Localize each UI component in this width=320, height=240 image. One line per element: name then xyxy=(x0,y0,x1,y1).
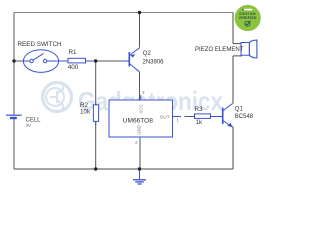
piezo element LS1 xyxy=(241,40,257,58)
svg-text:UM66TO8: UM66TO8 xyxy=(123,117,154,124)
IC U1 UM66T08 xyxy=(109,95,181,143)
svg-text:R3: R3 xyxy=(195,106,204,113)
wire right rail xyxy=(232,13,234,170)
wire top rail xyxy=(14,12,233,14)
svg-text:OUT: OUT xyxy=(160,115,170,120)
battery CELL xyxy=(6,115,22,118)
wire piezo jog xyxy=(233,44,242,56)
wire R2 branch xyxy=(95,61,97,169)
wire reed-R1-Q2 net xyxy=(14,60,129,62)
junction dot top rail xyxy=(138,11,141,14)
wire Q2 emitter to top xyxy=(139,13,141,48)
resistor R2 xyxy=(93,101,98,125)
transistor Q1 xyxy=(223,104,233,128)
junction dot bottom R2 xyxy=(94,167,97,170)
reed switch S1 xyxy=(23,50,58,73)
design verified badge xyxy=(235,5,261,31)
svg-text:10k: 10k xyxy=(80,108,91,115)
wire left rail xyxy=(13,13,15,170)
svg-text:Q1: Q1 xyxy=(235,107,244,113)
wire IC GND to bottom rail xyxy=(139,137,141,169)
transistor Q2 xyxy=(122,48,140,72)
svg-text:3V: 3V xyxy=(26,123,31,128)
svg-text:R1: R1 xyxy=(69,49,78,56)
svg-text:2N3906: 2N3906 xyxy=(143,60,165,66)
watermark logo swirl xyxy=(43,83,72,112)
junction dot left rail reed xyxy=(12,59,15,62)
svg-text:VCC: VCC xyxy=(138,104,143,113)
wire Q2 collector to IC VCC xyxy=(139,72,141,100)
resistor R1 xyxy=(59,58,96,63)
svg-text:PIEZO ELEMENT: PIEZO ELEMENT xyxy=(195,46,244,53)
wire bottom rail xyxy=(14,168,233,170)
svg-text:Q2: Q2 xyxy=(143,51,152,57)
wire IC out to R3 to Q1 base xyxy=(185,116,191,118)
svg-text:GND: GND xyxy=(136,125,141,135)
resistor R3 xyxy=(195,114,211,119)
svg-text:BC548: BC548 xyxy=(235,114,254,120)
svg-text:REED SWITCH: REED SWITCH xyxy=(18,41,63,48)
junction dot R1-R2 node xyxy=(94,59,97,62)
ground xyxy=(133,169,146,184)
svg-text:VERIFIED: VERIFIED xyxy=(239,16,257,20)
svg-text:1k: 1k xyxy=(196,119,204,126)
svg-text:400: 400 xyxy=(68,64,79,71)
junction dot bottom ground xyxy=(138,167,141,170)
